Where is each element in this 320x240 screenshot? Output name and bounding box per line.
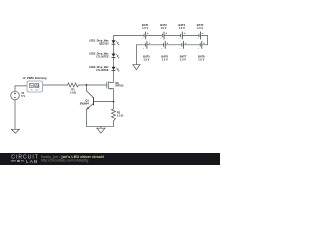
svg-text:-: - bbox=[180, 46, 181, 50]
wire between BAT2 and BAT3 bbox=[164, 35, 180, 37]
svg-text:+: + bbox=[165, 31, 167, 35]
wire Q1 emitter down bbox=[85, 110, 87, 127]
svg-text:+: + bbox=[148, 41, 150, 45]
battery BAT6 bbox=[164, 41, 166, 49]
svg-text:LTL-307EE: LTL-307EE bbox=[96, 69, 109, 72]
svg-text:+: + bbox=[167, 41, 169, 45]
svg-text:-: - bbox=[198, 46, 199, 50]
svg-text:IRF510: IRF510 bbox=[115, 85, 124, 88]
wire bottom rail to ground stem bbox=[100, 126, 102, 128]
transistor M1 (MOSFET) bbox=[107, 81, 114, 89]
wire Q1 base to source node bbox=[94, 101, 114, 103]
svg-text:-: - bbox=[160, 37, 161, 41]
battery BAT4 bbox=[199, 32, 201, 40]
wire top row from LED string to battery row 1 bbox=[114, 36, 144, 41]
svg-text:-: - bbox=[178, 37, 179, 41]
resistor R2 bbox=[112, 109, 116, 121]
svg-text:+: + bbox=[203, 41, 205, 45]
svg-text:QED123: QED123 bbox=[99, 43, 109, 46]
svg-text:1.5 V: 1.5 V bbox=[160, 26, 166, 30]
svg-text:1.5 V: 1.5 V bbox=[198, 58, 204, 62]
battery BAT3 bbox=[181, 32, 183, 40]
svg-text:1.5 V: 1.5 V bbox=[179, 26, 185, 30]
wire between BAT8 and BAT7 bbox=[184, 44, 201, 46]
wire V1 top to PWM module input bbox=[15, 86, 27, 91]
svg-text:v2_PWM_Dimming: v2_PWM_Dimming bbox=[22, 76, 46, 80]
wire between BAT6 and BAT5 bbox=[147, 44, 164, 46]
transistor Q1 bbox=[86, 91, 93, 110]
svg-text:-: - bbox=[143, 46, 144, 50]
battery BAT8 bbox=[200, 41, 202, 49]
LED LED3 bbox=[112, 67, 120, 72]
ground (bottom rail) bbox=[97, 128, 105, 133]
svg-text:1.5 Ω: 1.5 Ω bbox=[117, 114, 123, 118]
svg-text:1.5 V: 1.5 V bbox=[143, 58, 149, 62]
ground (battery string, at row2 left end) bbox=[133, 65, 140, 70]
svg-text:1.5 V: 1.5 V bbox=[197, 26, 203, 30]
svg-text:+: + bbox=[184, 31, 186, 35]
wire M1 source to R2 bbox=[113, 89, 115, 109]
LED LED1 bbox=[112, 40, 120, 45]
node source junction dot bbox=[113, 101, 115, 103]
module V2 PWM dimming box bbox=[27, 81, 43, 92]
wire Q1 collector to gate node bbox=[85, 85, 87, 91]
svg-text:-: - bbox=[161, 46, 162, 50]
battery BAT5 bbox=[145, 41, 147, 49]
svg-text:http://circuitlab.com/c4skp5g: http://circuitlab.com/c4skp5g bbox=[41, 159, 88, 163]
wire LED3 to M1 drain bbox=[113, 71, 115, 83]
resistor R1 bbox=[68, 83, 79, 87]
svg-text:-: - bbox=[142, 37, 143, 41]
logo lines + LAB bbox=[11, 160, 24, 161]
node gate junction dot bbox=[85, 84, 87, 86]
battery BAT7 bbox=[182, 41, 184, 49]
svg-text:5 V: 5 V bbox=[21, 94, 25, 98]
svg-text:1.5 V: 1.5 V bbox=[142, 26, 148, 30]
wire R2 bottom to bottom rail bbox=[113, 121, 115, 127]
ground (below V1) bbox=[11, 129, 19, 133]
svg-text:LTL-307EE: LTL-307EE bbox=[96, 56, 109, 59]
wire LED1 to LED2 bbox=[113, 44, 115, 53]
svg-text:+: + bbox=[147, 31, 149, 35]
wire bottom rail bbox=[86, 125, 113, 127]
wire row2 left end to ground stem bbox=[136, 45, 145, 65]
svg-text:1.5 V: 1.5 V bbox=[180, 58, 186, 62]
wire LED2 to LED3 bbox=[113, 58, 115, 67]
svg-text:+: + bbox=[202, 31, 204, 35]
wire right edge connector row1 to row2 bbox=[201, 36, 208, 45]
wire R1 to M1 gate bbox=[79, 84, 107, 86]
wire between BAT3 and BAT4 bbox=[183, 35, 199, 37]
svg-text:-: - bbox=[197, 37, 198, 41]
wire between BAT1 and BAT2 bbox=[146, 35, 162, 37]
voltage source V1 bbox=[11, 91, 20, 100]
wire V1 bottom to ground bbox=[14, 100, 16, 129]
wire between BAT7 and BAT6 bbox=[165, 44, 182, 46]
svg-text:1 kΩ: 1 kΩ bbox=[70, 90, 76, 94]
svg-text:1.5 V: 1.5 V bbox=[162, 58, 168, 62]
svg-text:LAB: LAB bbox=[26, 159, 38, 165]
footer bar bbox=[0, 153, 220, 165]
svg-text:+: + bbox=[185, 41, 187, 45]
battery BAT2 bbox=[162, 32, 164, 40]
svg-text:2N3904: 2N3904 bbox=[80, 101, 90, 105]
LED LED2 bbox=[112, 54, 120, 59]
wire PWM module output to R1 bbox=[43, 84, 68, 86]
battery BAT1 bbox=[144, 32, 146, 40]
